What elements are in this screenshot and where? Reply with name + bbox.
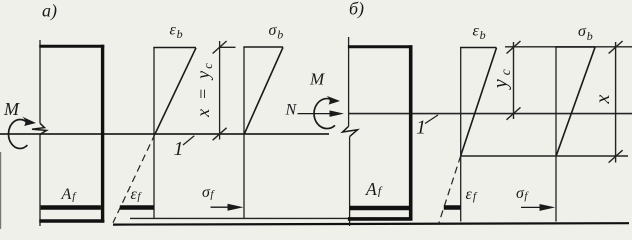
svg-text:1: 1 <box>416 117 426 139</box>
svg-text:а): а) <box>42 1 57 22</box>
svg-text:б): б) <box>349 0 364 20</box>
svg-text:N: N <box>285 102 298 119</box>
svg-text:1: 1 <box>174 138 184 160</box>
svg-text:x: x <box>592 94 614 104</box>
svg-text:x = yc: x = yc <box>193 63 215 118</box>
svg-text:M: M <box>309 70 325 89</box>
svg-text:M: M <box>3 99 20 119</box>
